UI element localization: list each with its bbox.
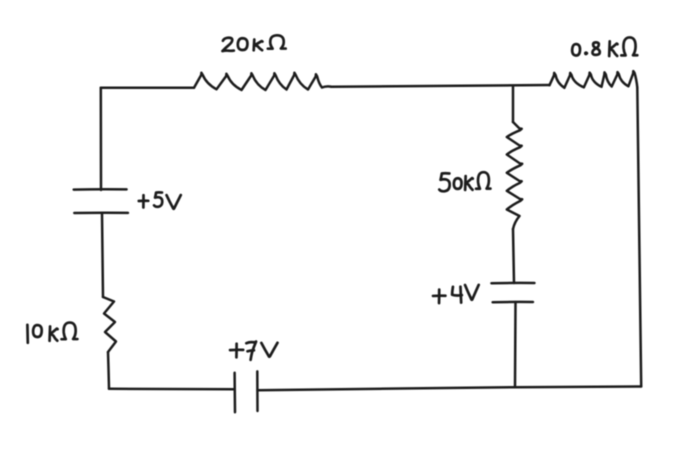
wire bottom segment left (bottom-left corner to V3) <box>109 388 235 391</box>
wire top segment left (top-left corner to R1) <box>101 86 194 89</box>
label V2 value +4V <box>433 285 479 303</box>
label V3 value +7V <box>230 342 277 360</box>
battery V3 +7V (two plates) <box>235 371 258 412</box>
wire bottom segment right (V3 through junction node to bottom-right corner) <box>258 387 642 391</box>
wire left vertical middle (V1 down to R3) <box>102 213 103 297</box>
wire left vertical upper (top-left corner down to V1) <box>100 88 103 190</box>
wire right vertical (R2 down to bottom-right corner) <box>637 88 641 387</box>
wire middle branch lower (V2 down to junction on bottom wire) <box>514 302 517 387</box>
label R2 value 0.8k-ohm <box>572 37 637 56</box>
label R4 value 50k-ohm <box>439 172 490 191</box>
resistor R2 0.8k <box>550 71 638 88</box>
label R1 value 20k-ohm <box>222 35 285 51</box>
battery V1 +5V (two plates) <box>74 189 128 213</box>
label R3 value 10k-ohm <box>27 323 77 343</box>
battery V2 +4V (two plates) <box>491 283 534 302</box>
label V1 value +5V <box>139 192 181 208</box>
resistor R1 20k <box>194 73 331 90</box>
wire middle branch upper (junction on top wire down to R4) <box>512 86 515 122</box>
resistor R4 50k <box>507 122 522 229</box>
wire top segment middle (R1 to R2 through junction node) <box>331 85 550 87</box>
wire left vertical lower (R3 down to bottom-left corner) <box>108 352 109 389</box>
resistor R3 10k <box>103 297 116 352</box>
wire middle branch middle (R4 down to V2) <box>513 229 514 283</box>
